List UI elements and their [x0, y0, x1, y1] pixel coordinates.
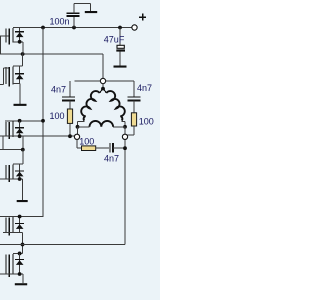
wire Q2 source to ground	[13, 83, 20, 85]
node right (R)	[122, 134, 127, 139]
wire node T right	[106, 80, 134, 82]
wire right branch down	[133, 81, 135, 97]
wire M3 drain net y=120.8	[5, 120, 43, 122]
inductor winding bottom	[78, 126, 90, 128]
junction Q5 source / long net	[21, 243, 25, 247]
wire up to node R	[124, 140, 126, 245]
wire node L down	[76, 140, 78, 149]
junction M1 source	[21, 52, 25, 56]
transistor Q6 MOSFET	[5, 255, 7, 275]
svg-text:47uF: 47uF	[104, 34, 125, 44]
junction Q1 diode-source	[18, 40, 22, 44]
svg-text:100: 100	[50, 111, 65, 121]
node top of transformer	[100, 78, 105, 83]
junction right corner	[123, 125, 127, 129]
ground (Q2 source)	[14, 104, 27, 106]
wire rail to M3 drain (x=43)	[42, 28, 44, 218]
wire M3 source down	[22, 136, 24, 149]
svg-text:100: 100	[79, 136, 94, 146]
capacitor C4 4n7 (right)	[128, 96, 141, 98]
node junction rail/100n	[72, 26, 76, 30]
wire node T left	[74, 80, 100, 82]
wire left corner to node L	[77, 127, 79, 134]
wire Q1 source	[13, 41, 23, 43]
transistor Q2 MOSFET	[5, 67, 7, 84]
capacitor C3 4n7 (left)	[62, 96, 75, 98]
wire Q5 source	[3, 232, 23, 234]
junction M4 drain	[21, 148, 25, 152]
inductor winding right arm	[106, 91, 124, 121]
junction left corner	[76, 125, 80, 129]
wire Q6 source to ground	[0, 273, 23, 275]
wire M2 drain	[22, 54, 24, 66]
capacitor C2 47uF electrolytic	[119, 28, 121, 46]
wire down to transformer top	[102, 54, 104, 78]
wire right corner to node R	[124, 127, 126, 134]
wire Q2 gate	[3, 67, 8, 69]
resistor R2 100 (right)	[131, 113, 136, 126]
winding fork	[100, 89, 103, 93]
wire Q4 source to ground	[0, 178, 23, 180]
ground (47uF)	[114, 66, 127, 68]
wire node T down	[102, 84, 104, 88]
svg-text:100: 100	[139, 117, 154, 127]
capacitor C1 100n	[73, 16, 75, 28]
inductor winding left arm	[81, 91, 99, 121]
wire left branch down	[69, 81, 71, 97]
junction bottom row / right drop	[123, 146, 127, 150]
ground (Q4 source)	[17, 200, 28, 202]
junction Q6 diode-source	[18, 272, 22, 276]
junction transformer top	[101, 87, 105, 91]
ground (Q6 source)	[15, 283, 27, 285]
node junction rail/47uF	[118, 26, 122, 30]
transistor Q4 MOSFET	[5, 165, 7, 179]
wire M3-source long net y=136.2	[0, 135, 74, 137]
wire Q3 gate bus	[2, 136, 4, 149]
wire M5 drain net y=216.5	[0, 216, 43, 218]
wire top positive rail	[13, 27, 132, 29]
node left (L)	[74, 134, 79, 139]
resistor R3 100 (bottom)	[82, 146, 96, 151]
transistor Q1 MOSFET	[5, 29, 7, 43]
svg-text:4n7: 4n7	[137, 83, 152, 93]
junction Q3 diode-drain	[18, 119, 22, 123]
resistor R1 100 (left)	[67, 109, 72, 123]
junction x43/M3-drain	[41, 119, 45, 123]
wire M6 drain	[13, 252, 23, 254]
junction R1 bottom	[68, 134, 72, 138]
wire left arm end	[78, 120, 85, 122]
wire 100n to ground	[74, 3, 91, 5]
wire M4 drain net y=149.6	[0, 149, 23, 151]
ground (top)	[85, 11, 97, 13]
transistor Q5 MOSFET	[5, 218, 7, 233]
svg-text:100n: 100n	[50, 16, 70, 26]
wire M4 drain down	[22, 150, 24, 164]
terminal + output	[132, 25, 137, 30]
junction M6 diode-drain	[18, 252, 22, 256]
junction Q4 diode-source	[18, 177, 22, 181]
transistor Q3 MOSFET	[5, 122, 7, 137]
capacitor C5 4n7 (bottom)	[109, 143, 111, 153]
svg-text:4n7: 4n7	[104, 153, 119, 163]
junction M3 diode/source	[18, 134, 22, 138]
junction Q5 diode-drain	[18, 215, 22, 219]
node junction rail/43	[41, 26, 45, 30]
wire bottom long net y=244.5	[0, 244, 125, 246]
wire Q1 gate	[0, 35, 9, 37]
wire M1-source / M2-drain net y=54	[0, 53, 103, 55]
svg-text:4n7: 4n7	[51, 84, 66, 94]
wire right arm end	[122, 120, 125, 122]
